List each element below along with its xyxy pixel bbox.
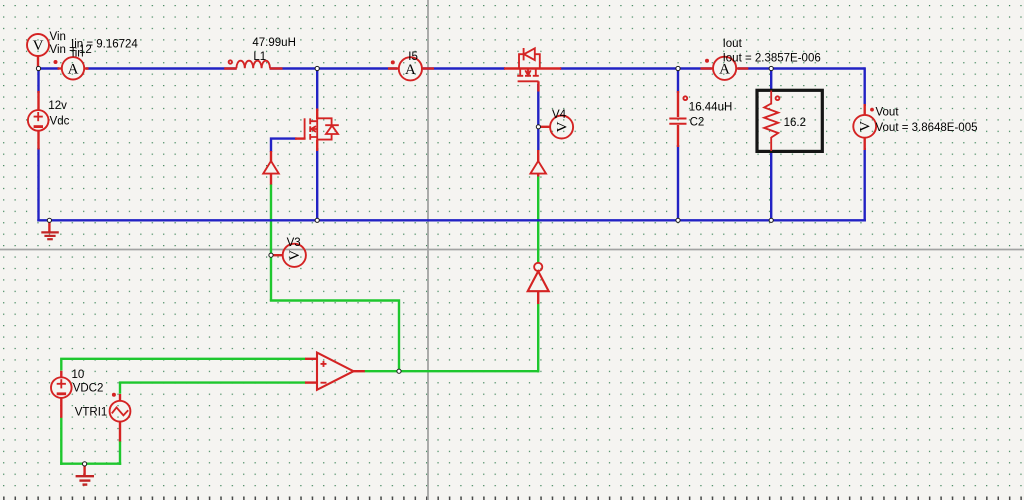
svg-text:A: A <box>405 62 416 78</box>
ammeter Iin <box>54 57 89 79</box>
svg-text:L1: L1 <box>253 51 266 63</box>
node: load top junction <box>769 66 773 70</box>
voltmeter probe V4 <box>539 116 573 139</box>
wire: C2 branch upper (blue) <box>677 69 679 94</box>
wire: top bus segment 6 (blue) <box>738 67 865 69</box>
node: input top junction <box>36 66 40 70</box>
on-off controller input ring <box>534 263 542 271</box>
wire: opamp output bus (green) <box>364 370 539 372</box>
wire: control ground bus (green) <box>60 463 121 465</box>
wire: gate2 control vertical lower (green) <box>537 304 539 373</box>
op-amp comparator U1 <box>305 353 365 390</box>
resistor R load 16.2 <box>764 91 779 152</box>
MOSFET Q1 (low side, vertical) <box>295 109 339 152</box>
wire: gate2 control vertical upper (green) <box>537 176 539 263</box>
wire: control horizontal to opamp node (green) <box>270 301 399 371</box>
svg-text:12v: 12v <box>48 100 67 112</box>
node: opamp output junction <box>397 369 401 373</box>
svg-text:10: 10 <box>72 369 85 381</box>
ground main circuit <box>41 220 59 239</box>
wire: VTRI1 bottom (green) <box>119 441 121 465</box>
on-off switch controller T3 <box>528 271 549 304</box>
svg-text:Vin: Vin <box>50 31 66 43</box>
voltmeter probe Vin <box>27 34 49 67</box>
sheet divider horizontal line <box>0 249 1024 251</box>
svg-text:VDC2: VDC2 <box>73 383 104 395</box>
svg-text:A: A <box>68 62 79 78</box>
ammeter Iout <box>701 57 749 80</box>
svg-text:V4: V4 <box>552 109 567 121</box>
svg-text:Iout: Iout <box>723 38 743 50</box>
wire: top bus segment 2 (blue) <box>86 67 236 69</box>
node: control ground junction <box>83 462 87 466</box>
svg-text:VTRI1: VTRI1 <box>75 406 108 418</box>
gate driver block T2 <box>530 150 546 177</box>
svg-text:Iout = 2.3857E-006: Iout = 2.3857E-006 <box>723 53 821 65</box>
voltmeter probe V3 <box>273 244 306 267</box>
svg-text:V: V <box>33 38 44 54</box>
node: V3 junction <box>269 253 273 257</box>
wire: input source branch lower (blue) <box>37 148 39 222</box>
wire: top bus segment 1 (blue) <box>39 67 60 69</box>
sheet boundary tick row bottom <box>0 497 1024 500</box>
wire: gate1 lead across (blue) <box>271 139 297 152</box>
capacitor C2 <box>669 91 687 147</box>
inductor L1 <box>224 60 282 68</box>
wire: top bus segment 3 (blue) <box>270 67 397 69</box>
wire: VDC2 bottom (green) <box>60 417 62 465</box>
svg-text:V: V <box>554 121 570 132</box>
wire: ground bus bottom (blue) <box>37 219 866 221</box>
node: V4 junction <box>536 125 540 129</box>
svg-text:V3: V3 <box>287 237 301 249</box>
svg-text:I5: I5 <box>408 51 418 63</box>
MOSFET Q2 (high side, horizontal) <box>504 48 561 92</box>
svg-text:47.99uH: 47.99uH <box>252 37 295 49</box>
node: load bottom junction <box>769 218 773 222</box>
triangle-wave source VTRI1 <box>110 393 131 442</box>
wire: MOSFET2 gate drop (blue) <box>537 84 539 151</box>
wire: top bus segment 4 (blue) <box>423 67 505 69</box>
node: C2 bottom junction <box>676 218 680 222</box>
svg-text:C2: C2 <box>690 117 705 129</box>
wire: C2 branch lower (blue) <box>677 145 679 220</box>
wire: gate1 control vertical (green) <box>270 184 272 301</box>
wire: MOSFET1 branch upper (blue) <box>316 69 318 112</box>
ammeter I5 <box>388 57 434 80</box>
wire: top bus segment 5 (blue) <box>560 67 712 69</box>
wire: VDC2 to opamp plus input (green) <box>61 359 305 371</box>
wire: load branch bottom (blue) <box>770 150 772 220</box>
svg-text:Iin: Iin <box>72 48 84 60</box>
wire: load branch top (blue) <box>770 69 772 93</box>
node: MOSFET1 bottom junction <box>315 218 319 222</box>
svg-text:Vout = 3.8648E-005: Vout = 3.8648E-005 <box>876 122 978 134</box>
ground control circuit <box>76 464 94 485</box>
dc source Vdc 12v <box>28 91 49 150</box>
svg-text:16.44uH: 16.44uH <box>689 102 732 114</box>
sheet divider vertical line <box>427 0 429 500</box>
svg-text:16.2: 16.2 <box>784 117 806 129</box>
svg-text:V: V <box>858 121 874 132</box>
svg-text:V: V <box>287 250 303 261</box>
wire: output right branch upper (blue) <box>864 67 866 106</box>
svg-text:Vdc: Vdc <box>50 116 70 128</box>
wire: VTRI1 to opamp minus input (green) <box>120 383 306 394</box>
dc source VDC2 <box>51 371 72 418</box>
node: C2 top junction <box>676 66 680 70</box>
wire: input source branch upper (blue) <box>37 67 39 93</box>
node: main ground junction <box>47 218 51 222</box>
node: inductor output junction <box>315 66 319 70</box>
wire: output right branch lower (blue) <box>864 148 866 222</box>
wire: MOSFET1 branch lower (blue) <box>316 148 318 220</box>
gate driver block T1 <box>263 151 279 185</box>
voltmeter probe Vout <box>853 104 876 150</box>
load enclosure box <box>757 90 822 151</box>
svg-text:Vout: Vout <box>876 106 900 118</box>
